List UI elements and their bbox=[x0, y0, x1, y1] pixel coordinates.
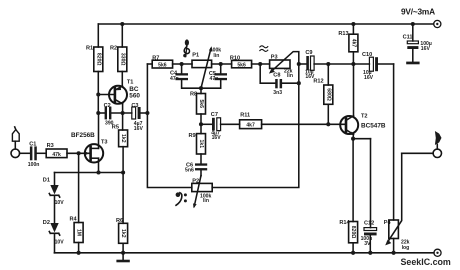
wire node-X vertical C3 to P2 bbox=[147, 64, 191, 188]
svg-text:10V: 10V bbox=[55, 240, 65, 246]
svg-text:BF256B: BF256B bbox=[71, 132, 95, 139]
capacitor C9 10u bbox=[299, 50, 354, 80]
svg-text:R6: R6 bbox=[116, 218, 123, 224]
wire input bbox=[20, 152, 30, 154]
svg-text:47n: 47n bbox=[170, 76, 179, 82]
svg-text:R2: R2 bbox=[110, 46, 117, 52]
capacitor C4 47n bbox=[170, 64, 188, 82]
svg-text:820Ω: 820Ω bbox=[350, 226, 356, 239]
svg-text:R4: R4 bbox=[70, 217, 78, 223]
resistor R6 1k2 bbox=[116, 173, 128, 253]
terminal input jack bbox=[11, 141, 20, 157]
node R8-R9-C7 bbox=[199, 122, 203, 126]
svg-text:330Ω: 330Ω bbox=[119, 53, 125, 66]
capacitor C7 4u7 bbox=[201, 112, 240, 141]
svg-text:10V: 10V bbox=[55, 200, 65, 206]
resistor R12 680 bbox=[313, 64, 332, 124]
capacitor C6 5n6 bbox=[185, 163, 207, 176]
svg-text:C3: C3 bbox=[131, 103, 138, 109]
svg-text:P1: P1 bbox=[192, 52, 199, 58]
wire top supply rail bbox=[98, 23, 433, 25]
node drain-R1 junction bbox=[96, 111, 100, 115]
svg-text:4k7: 4k7 bbox=[246, 123, 255, 129]
svg-text:4k7: 4k7 bbox=[350, 39, 356, 48]
zener D2 10V bbox=[43, 220, 64, 253]
node R13-T2 junction bbox=[351, 62, 355, 66]
resistor R7 5k6 bbox=[147, 55, 192, 68]
svg-text:R11: R11 bbox=[240, 112, 250, 118]
svg-text:R9: R9 bbox=[189, 133, 196, 139]
svg-text:T3: T3 bbox=[101, 140, 108, 146]
svg-text:100n: 100n bbox=[28, 162, 40, 168]
terminal 9V supply bbox=[401, 6, 441, 27]
svg-text:5k6: 5k6 bbox=[158, 63, 167, 69]
svg-text:lin: lin bbox=[213, 53, 219, 59]
svg-text:P3: P3 bbox=[271, 54, 278, 60]
resistor R14 820 bbox=[339, 139, 357, 253]
svg-text:47k: 47k bbox=[52, 152, 61, 158]
svg-text:D1: D1 bbox=[43, 177, 50, 183]
node R4 tap bbox=[77, 151, 81, 155]
node B P1-R10-C5 bbox=[219, 62, 223, 66]
svg-text:R10: R10 bbox=[230, 55, 240, 61]
node C9-R12 junction bbox=[326, 62, 330, 66]
svg-text:T1: T1 bbox=[127, 80, 134, 86]
svg-text:C11: C11 bbox=[403, 35, 413, 41]
node T1 base / R1 bbox=[96, 92, 100, 96]
wire emitter row bbox=[353, 138, 370, 140]
capacitor C8 3n3 bbox=[260, 64, 299, 96]
node emitter junction bbox=[351, 137, 355, 141]
node C8 right junction bbox=[297, 81, 301, 85]
resistor R8 5k6 bbox=[190, 88, 206, 133]
node rail-R4 bbox=[77, 251, 81, 255]
svg-text:P2: P2 bbox=[192, 179, 199, 185]
resistor R11 4k7 bbox=[240, 112, 346, 128]
symbol mid tilde bbox=[260, 46, 268, 52]
svg-text:log: log bbox=[402, 245, 410, 251]
svg-text:3n3: 3n3 bbox=[273, 90, 282, 96]
capacitor C12 100u bbox=[361, 139, 377, 253]
svg-text:C7: C7 bbox=[211, 112, 218, 118]
wire bottom rail bbox=[55, 252, 434, 254]
resistor R5 1k2 bbox=[112, 113, 128, 173]
svg-text:R13: R13 bbox=[338, 31, 348, 37]
svg-text:1M: 1M bbox=[76, 229, 82, 236]
capacitor C2 390 bbox=[104, 103, 114, 127]
bass clef symbol bbox=[176, 192, 187, 205]
svg-text:R3: R3 bbox=[47, 143, 54, 149]
potentiometer P2 100k lin bass bbox=[192, 176, 212, 209]
treble clef symbol bbox=[183, 39, 189, 57]
node wiper-R8 bbox=[199, 86, 203, 90]
ground bottom rail bbox=[116, 253, 129, 263]
svg-text:C10: C10 bbox=[362, 52, 372, 58]
node R10-P3-C8 bbox=[258, 62, 262, 66]
wire collector row bbox=[98, 112, 147, 114]
capacitor C5 47n bbox=[209, 64, 227, 82]
svg-text:5k6: 5k6 bbox=[237, 63, 246, 69]
svg-text:1k2: 1k2 bbox=[120, 134, 126, 143]
wire C4-C5 bridge bbox=[182, 80, 221, 88]
wire C10 to P4 bbox=[393, 64, 395, 220]
svg-text:BC547B: BC547B bbox=[361, 123, 386, 130]
node rail-R13 junction bbox=[351, 22, 355, 26]
svg-text:16V: 16V bbox=[421, 46, 431, 52]
node T1 collector junction bbox=[121, 111, 125, 115]
svg-text:820Ω: 820Ω bbox=[95, 53, 101, 66]
resistor R2 330 bbox=[110, 24, 127, 86]
node source junction bbox=[96, 170, 100, 174]
svg-text:R14: R14 bbox=[339, 220, 350, 226]
capacitor C10 10u bbox=[353, 52, 393, 81]
node R12-base junction bbox=[326, 122, 330, 126]
plug input symbol bbox=[12, 127, 19, 141]
svg-text:R5: R5 bbox=[112, 125, 119, 131]
resistor R3 47k bbox=[46, 143, 90, 158]
node rail-R2 junction bbox=[120, 22, 124, 26]
capacitor C3 4u7 bbox=[131, 103, 143, 132]
svg-text:C1: C1 bbox=[29, 142, 36, 148]
svg-text:680Ω: 680Ω bbox=[325, 88, 331, 101]
plug output symbol bbox=[435, 131, 442, 149]
resistor R4 1M bbox=[70, 153, 84, 253]
svg-text:16V: 16V bbox=[212, 135, 222, 141]
svg-text:R7: R7 bbox=[152, 55, 159, 61]
transistor T1 BC560 bbox=[98, 80, 140, 114]
potentiometer P3 22k lin bbox=[269, 52, 299, 79]
svg-text:R1: R1 bbox=[86, 46, 93, 52]
capacitor C1 100n bbox=[28, 142, 46, 168]
capacitor C11 100u bbox=[403, 24, 432, 62]
svg-text:C12: C12 bbox=[364, 220, 374, 226]
svg-text:1k2: 1k2 bbox=[120, 229, 126, 238]
terminal output jack bbox=[433, 149, 441, 157]
wire source row bbox=[55, 172, 124, 174]
node rail-R6 bbox=[121, 251, 125, 255]
node P3 right junction bbox=[297, 62, 301, 66]
svg-text:T2: T2 bbox=[361, 114, 368, 120]
node R5-R6 junction bbox=[121, 170, 125, 174]
potentiometer P4 22k log bbox=[384, 153, 410, 253]
zener D1 10V bbox=[43, 173, 64, 224]
resistor R9 1k1 bbox=[189, 133, 206, 164]
svg-text:5k6: 5k6 bbox=[198, 99, 204, 108]
svg-text:16V: 16V bbox=[364, 75, 374, 81]
node rail-P4 bbox=[392, 251, 396, 255]
svg-text:D2: D2 bbox=[43, 220, 50, 226]
node rail-C12 bbox=[368, 251, 372, 255]
svg-text:SeekIC.com: SeekIC.com bbox=[401, 257, 451, 267]
svg-text:lin: lin bbox=[287, 73, 293, 79]
svg-text:R12: R12 bbox=[313, 78, 323, 84]
resistor R13 4k7 bbox=[338, 24, 358, 64]
watermark SeekIC.com bbox=[401, 257, 451, 267]
svg-text:5n6: 5n6 bbox=[185, 168, 194, 174]
svg-text:560: 560 bbox=[129, 92, 140, 99]
node rail-C11 junction bbox=[411, 22, 415, 26]
potentiometer P1 100k lin bbox=[192, 46, 232, 88]
svg-text:R8: R8 bbox=[190, 91, 197, 97]
wire P2 right to feedback column bbox=[212, 64, 299, 188]
svg-text:C8: C8 bbox=[273, 72, 280, 78]
svg-text:lin: lin bbox=[203, 198, 209, 204]
node A R7-P1-C4 bbox=[180, 62, 184, 66]
svg-text:16V: 16V bbox=[134, 126, 144, 132]
svg-text:P4: P4 bbox=[384, 220, 392, 226]
wire output row bbox=[402, 152, 433, 154]
ground C11 bbox=[406, 62, 419, 65]
transistor T2 BC547B bbox=[340, 64, 386, 139]
transistor T3 BF256B jfet bbox=[71, 113, 108, 173]
svg-text:C2: C2 bbox=[104, 103, 111, 109]
svg-text:1k1: 1k1 bbox=[198, 140, 204, 149]
node rail-R14 bbox=[351, 251, 355, 255]
svg-text:47n: 47n bbox=[210, 76, 219, 82]
terminal 0V bottom bbox=[434, 249, 441, 256]
resistor R10 5k6 bbox=[230, 55, 270, 68]
resistor R1 820 bbox=[86, 24, 103, 113]
node C3-R7 junction bbox=[145, 111, 149, 115]
svg-text:C9: C9 bbox=[305, 50, 312, 56]
svg-text:9V/~3mA: 9V/~3mA bbox=[401, 6, 435, 16]
